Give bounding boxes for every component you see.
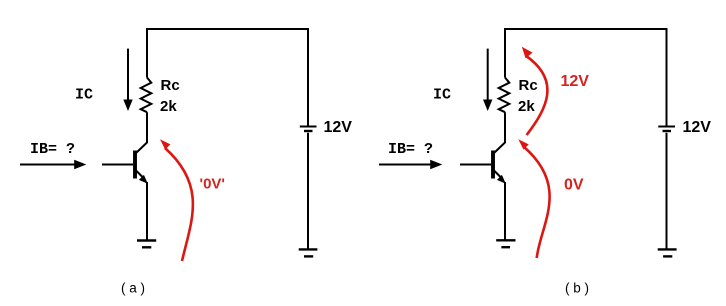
svg-text:2k: 2k <box>160 98 177 115</box>
svg-text:12V: 12V <box>324 119 353 136</box>
svg-text:IC: IC <box>75 87 93 104</box>
battery V1 plates (a) <box>300 126 317 128</box>
svg-text:0V: 0V <box>564 176 584 193</box>
annotation red arrow 12V upper (b) <box>522 47 548 135</box>
wire battery to ground (a) <box>307 133 309 249</box>
transistor Q1 emitter diagonal (a) <box>136 171 144 179</box>
battery V2 plates (b) <box>658 126 675 128</box>
wire collector segment (b) <box>504 112 506 142</box>
transistor Q1 collector diagonal (a) <box>136 142 148 153</box>
ground battery (b) <box>658 248 677 250</box>
transistor Q2 base bar (b) <box>491 151 495 179</box>
svg-text:( b ): ( b ) <box>565 280 589 295</box>
transistor Q2 emitter diagonal (b) <box>494 171 502 179</box>
wire collector segment (a) <box>146 112 148 142</box>
wire top rail (b) <box>505 29 667 126</box>
transistor Q1 base bar (a) <box>133 151 137 179</box>
svg-text:IC: IC <box>433 87 451 104</box>
svg-text:2k: 2k <box>518 98 535 115</box>
current arrow IB (b) <box>379 160 442 169</box>
svg-text:Rc: Rc <box>519 77 538 94</box>
svg-text:IB= ?: IB= ? <box>388 141 433 158</box>
current arrow IC (b) <box>487 49 489 100</box>
resistor Rc (b) <box>499 78 510 113</box>
wire base lead (a) <box>102 164 133 166</box>
annotation red arrow 0V (a) <box>160 139 193 261</box>
transistor Q2 emitter arrowhead (b) <box>497 175 506 184</box>
ground battery (a) <box>299 248 318 250</box>
svg-text:Rc: Rc <box>161 77 180 94</box>
wire top rail (a) <box>147 29 308 126</box>
ground emitter (b) <box>496 239 515 241</box>
wire emitter to ground (b) <box>504 182 506 240</box>
svg-text:IB= ?: IB= ? <box>30 141 75 158</box>
svg-text:'0V': '0V' <box>200 176 225 193</box>
svg-text:12V: 12V <box>561 73 590 90</box>
svg-text:12V: 12V <box>683 119 712 136</box>
resistor Rc (a) <box>141 78 152 113</box>
annotation red arrow 0V lower (b) <box>518 139 549 258</box>
wire emitter to ground (a) <box>146 182 148 240</box>
transistor Q2 collector diagonal (b) <box>494 142 506 153</box>
transistor Q1 emitter arrowhead (a) <box>139 175 148 184</box>
current arrow IB (a) <box>20 160 86 169</box>
ground emitter (a) <box>137 239 156 241</box>
svg-text:( a ): ( a ) <box>121 280 145 295</box>
wire battery to ground (b) <box>666 133 668 249</box>
wire base lead (b) <box>460 164 491 166</box>
current arrow IC (a) <box>127 49 129 100</box>
